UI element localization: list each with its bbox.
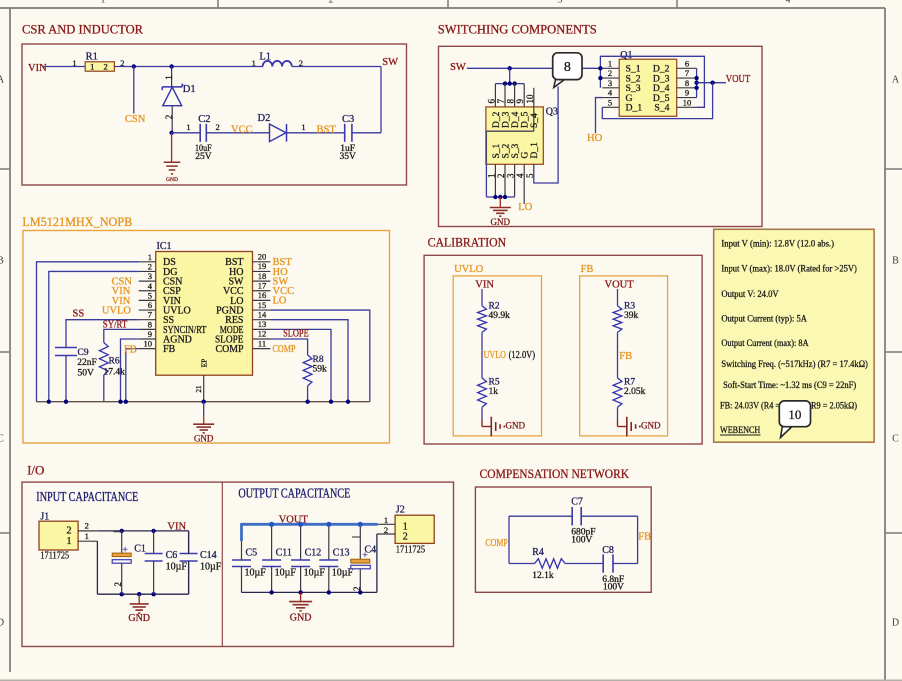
svg-text:2: 2 [352,587,362,592]
svg-text:Input V (min): 12.8V (12.0 abs: Input V (min): 12.8V (12.0 abs.) [721,239,834,250]
svg-text:LO: LO [518,202,532,213]
svg-text:1711725: 1711725 [40,551,69,562]
svg-text:GND: GND [641,421,661,431]
svg-text:3: 3 [558,0,563,5]
svg-text:G: G [521,152,531,159]
svg-text:D2: D2 [258,113,271,124]
svg-text:4: 4 [786,0,791,5]
svg-text:J2: J2 [396,505,405,516]
svg-text:19: 19 [258,261,267,271]
svg-text:7: 7 [496,99,506,104]
svg-text:12: 12 [258,329,267,339]
svg-text:6: 6 [486,99,496,104]
svg-text:CALIBRATION: CALIBRATION [428,234,507,249]
svg-text:UVLO: UVLO [454,264,484,275]
svg-text:10: 10 [788,407,801,422]
svg-text:COMP: COMP [216,344,244,355]
svg-text:FB: FB [163,344,176,355]
svg-text:VIN: VIN [28,63,47,74]
svg-text:49.9k: 49.9k [489,311,511,321]
svg-text:C5: C5 [246,548,258,559]
svg-text:18: 18 [258,271,267,281]
svg-text:C: C [892,434,899,445]
svg-text:16: 16 [258,290,267,300]
svg-text:VOUT: VOUT [726,74,751,85]
svg-text:GND: GND [128,613,150,624]
svg-text:FB: FB [124,345,137,356]
svg-text:S_4: S_4 [530,113,540,128]
svg-text:1711725: 1711725 [396,544,425,555]
svg-text:C2: C2 [198,114,210,125]
svg-text:D_1: D_1 [626,103,643,114]
svg-text:LM5121MHX_NOPB: LM5121MHX_NOPB [22,214,132,229]
svg-text:10µF: 10µF [166,562,188,573]
svg-text:9: 9 [685,88,689,98]
svg-text:2: 2 [215,122,219,132]
svg-text:UVLO: UVLO [102,305,132,316]
svg-text:100V: 100V [571,535,592,545]
svg-text:2: 2 [148,261,152,271]
svg-text:C1: C1 [134,543,146,554]
svg-text:21: 21 [195,385,203,393]
svg-text:Output Current (max): 8A: Output Current (max): 8A [721,338,808,349]
svg-text:CSN: CSN [125,114,146,125]
svg-text:3: 3 [608,78,612,88]
svg-text:6: 6 [148,300,152,310]
svg-text:1: 1 [608,58,612,68]
svg-text:1: 1 [148,252,152,262]
svg-text:10µF: 10µF [245,568,267,579]
svg-text:2: 2 [329,0,334,5]
svg-text:S_3: S_3 [511,143,521,158]
svg-text:VIN: VIN [475,279,494,290]
svg-text:12.1k: 12.1k [532,571,554,581]
svg-text:L1: L1 [259,52,271,63]
svg-text:C13: C13 [333,548,350,559]
svg-text:Output Current (typ): 5A: Output Current (typ): 5A [721,314,807,325]
svg-text:WEBENCH: WEBENCH [720,426,760,436]
svg-text:8: 8 [685,78,689,88]
svg-text:SW: SW [450,62,466,73]
svg-text:2: 2 [384,525,388,535]
svg-text:S_1: S_1 [492,143,502,158]
svg-text:1: 1 [72,58,76,68]
svg-text:10: 10 [683,97,692,107]
svg-text:EP: EP [200,359,209,368]
svg-text:8: 8 [506,99,516,104]
svg-text:1: 1 [67,536,72,547]
svg-text:C14: C14 [200,550,217,561]
svg-text:B: B [0,256,4,267]
svg-text:10: 10 [144,339,153,349]
svg-text:2: 2 [608,68,612,78]
svg-text:59k: 59k [313,365,328,375]
svg-text:10: 10 [525,94,535,104]
svg-text:Output V: 24.0V: Output V: 24.0V [721,290,778,300]
svg-text:Switching Freq. (~517kHz) (R7: Switching Freq. (~517kHz) (R7 = 17.4kΩ) [721,359,868,370]
svg-text:50V: 50V [78,368,95,378]
svg-text:D: D [892,618,899,629]
svg-text:R6: R6 [109,357,120,367]
svg-text:5: 5 [525,173,535,178]
svg-text:1: 1 [90,62,94,72]
svg-text:S_2: S_2 [501,143,511,158]
svg-text:7: 7 [148,310,152,320]
svg-text:8: 8 [148,319,152,329]
svg-text:Soft-Start Time: ~1.32 ms (C9: Soft-Start Time: ~1.32 ms (C9 = 22nF) [723,380,856,391]
svg-text:D_1: D_1 [530,142,540,159]
svg-text:17.4k: 17.4k [104,368,126,378]
svg-text:VIN: VIN [167,522,186,533]
svg-text:B: B [892,256,899,267]
svg-text:1: 1 [486,174,496,179]
svg-text:14: 14 [258,309,267,319]
svg-text:C12: C12 [305,548,322,559]
svg-text:SS: SS [73,309,85,320]
svg-text:R4: R4 [532,547,544,558]
svg-text:OUTPUT CAPACITANCE: OUTPUT CAPACITANCE [238,486,350,501]
svg-text:1: 1 [186,122,190,132]
svg-text:D_4: D_4 [511,111,521,128]
svg-text:C9: C9 [78,348,89,358]
svg-text:13: 13 [258,319,267,329]
svg-text:C3: C3 [342,114,354,125]
svg-text:C: C [0,434,4,445]
svg-text:10µF: 10µF [275,568,297,579]
svg-text:C4: C4 [365,545,377,556]
svg-text:Input V (max): 18.0V (Rated fo: Input V (max): 18.0V (Rated for >25V) [721,264,857,275]
svg-text:A: A [892,75,900,86]
svg-text:9: 9 [515,99,525,104]
svg-text:GND: GND [290,613,312,624]
svg-text:C7: C7 [571,496,583,507]
svg-text:9: 9 [148,329,152,339]
svg-text:25V: 25V [195,152,212,162]
svg-text:35V: 35V [340,152,357,162]
svg-text:11: 11 [258,338,266,348]
svg-text:1: 1 [384,515,388,525]
svg-text:I/O: I/O [27,462,44,477]
svg-text:Q3: Q3 [546,107,558,118]
svg-text:2: 2 [85,521,89,531]
svg-text:R1: R1 [86,52,98,63]
svg-text:FB: FB [619,351,632,362]
svg-text:1: 1 [85,531,89,541]
svg-text:SWITCHING COMPONENTS: SWITCHING COMPONENTS [438,22,597,37]
svg-text:GND: GND [506,421,526,431]
svg-text:LO: LO [273,296,287,307]
svg-text:(12.0V): (12.0V) [509,350,536,361]
svg-text:C8: C8 [602,545,614,556]
svg-text:HO: HO [587,133,603,144]
svg-text:D_5: D_5 [521,111,531,128]
svg-text:2.05k: 2.05k [624,387,646,397]
svg-text:10µF: 10µF [304,568,326,579]
svg-text:D_3: D_3 [501,111,511,128]
svg-text:1: 1 [252,58,256,68]
svg-text:17: 17 [258,280,267,290]
svg-text:2: 2 [403,532,408,543]
svg-text:GND: GND [194,433,214,443]
svg-text:+: + [123,545,128,555]
svg-text:1: 1 [101,0,106,5]
svg-text:VOUT: VOUT [279,514,309,525]
svg-text:BST: BST [317,125,337,136]
svg-text:IC1: IC1 [157,241,172,252]
svg-text:3: 3 [506,173,516,178]
svg-text:2: 2 [164,115,174,120]
svg-text:R8: R8 [313,355,324,365]
svg-text:5: 5 [608,97,612,107]
svg-text:CSR AND INDUCTOR: CSR AND INDUCTOR [22,21,143,36]
svg-text:SW: SW [382,57,398,68]
svg-text:S_4: S_4 [654,103,669,114]
svg-text:2: 2 [103,62,107,72]
svg-text:FB: FB [581,264,594,275]
svg-text:C11: C11 [276,548,292,559]
svg-text:4: 4 [515,173,525,178]
svg-text:3: 3 [148,271,152,281]
svg-text:SY/RT: SY/RT [103,319,128,330]
svg-text:7: 7 [685,68,689,78]
svg-text:GND: GND [166,177,178,183]
svg-text:6: 6 [685,58,689,68]
svg-text:5: 5 [148,290,152,300]
svg-text:15: 15 [258,300,267,310]
svg-text:FB: FB [638,532,651,543]
svg-text:22nF: 22nF [77,358,97,368]
svg-text:1: 1 [301,122,305,132]
svg-text:COMP: COMP [485,538,508,549]
svg-text:10µF: 10µF [200,562,222,573]
svg-text:INPUT CAPACITANCE: INPUT CAPACITANCE [36,489,138,504]
svg-text:GND: GND [491,217,511,227]
svg-text:D1: D1 [183,84,196,95]
svg-text:100V: 100V [603,582,624,592]
svg-text:C6: C6 [166,550,178,561]
svg-text:2: 2 [113,582,123,587]
svg-text:1k: 1k [489,387,499,397]
svg-text:D: D [0,618,4,629]
svg-text:39k: 39k [624,311,639,321]
svg-text:VOUT: VOUT [605,279,635,290]
svg-text:8: 8 [564,60,571,75]
svg-text:UVLO: UVLO [484,350,507,361]
svg-text:20: 20 [258,252,267,262]
svg-text:SLOPE: SLOPE [283,329,309,340]
svg-text:D_2: D_2 [492,111,502,128]
svg-text:COMPENSATION NETWORK: COMPENSATION NETWORK [480,466,630,481]
svg-text:VCC: VCC [231,125,253,136]
svg-text:Q1: Q1 [620,50,632,61]
svg-text:1: 1 [164,75,174,80]
svg-text:COMP: COMP [273,344,296,355]
svg-text:2: 2 [496,174,506,179]
